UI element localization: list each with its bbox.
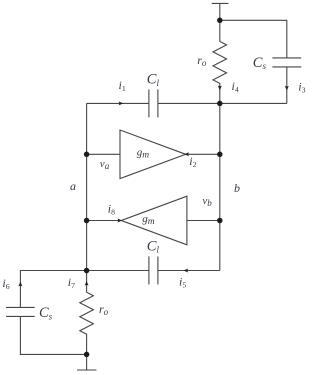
svg-text:Cl: Cl xyxy=(147,238,160,254)
svg-text:i8: i8 xyxy=(108,202,115,217)
svg-text:Cs: Cs xyxy=(39,305,53,321)
svg-text:i6: i6 xyxy=(2,276,9,291)
svg-text:i5: i5 xyxy=(179,274,186,289)
svg-text:gm: gm xyxy=(137,147,150,161)
svg-text:va: va xyxy=(100,158,110,171)
svg-text:gm: gm xyxy=(142,213,155,227)
svg-text:vb: vb xyxy=(202,195,212,208)
svg-text:Cl: Cl xyxy=(147,72,160,88)
svg-text:ro: ro xyxy=(197,53,207,68)
svg-text:ro: ro xyxy=(99,302,109,317)
svg-text:b: b xyxy=(234,181,240,195)
svg-text:i7: i7 xyxy=(68,275,75,290)
svg-text:i3: i3 xyxy=(298,80,305,95)
svg-text:Cs: Cs xyxy=(253,55,267,71)
svg-text:a: a xyxy=(70,179,76,193)
svg-text:i1: i1 xyxy=(119,78,126,93)
svg-text:i2: i2 xyxy=(189,154,196,169)
svg-text:i4: i4 xyxy=(232,79,239,94)
